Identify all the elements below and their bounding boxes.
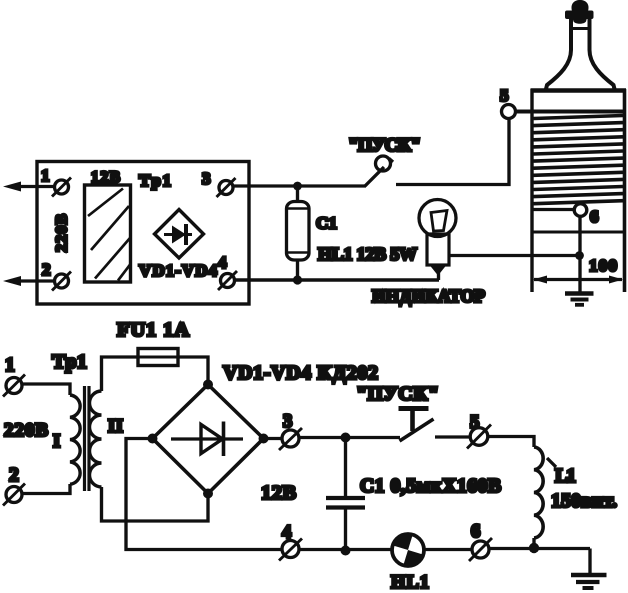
lamp HL1 indicator bulb: [419, 200, 456, 237]
wire arrow to terminal 1: [18, 185, 55, 188]
svg-text:VD1-VD4: VD1-VD4: [139, 261, 218, 280]
wire terminal 6 to ground: [489, 547, 590, 550]
svg-text:12В: 12В: [261, 482, 296, 504]
svg-text:150вит.: 150вит.: [551, 491, 617, 512]
converter box: [37, 162, 249, 305]
wire terminal 1 to primary: [23, 384, 71, 395]
transformer primary winding I: [70, 395, 80, 484]
svg-text:2: 2: [9, 465, 19, 486]
svg-text:3: 3: [283, 412, 292, 432]
terminal 4: [221, 274, 235, 288]
wire lamp to ground column: [449, 254, 580, 257]
svg-text:12В: 12В: [91, 169, 120, 186]
terminal 6 bottom: [472, 541, 489, 558]
junction C1 top: [293, 182, 302, 191]
svg-text:5: 5: [500, 86, 509, 105]
wire primary to terminal 2: [23, 484, 71, 494]
terminal 2: [55, 274, 69, 288]
terminal 3 bottom: [282, 430, 299, 447]
wire terminal 4 to lamp: [235, 278, 440, 281]
wire terminal 3 to push button: [299, 436, 400, 439]
svg-text:6: 6: [590, 207, 599, 226]
wire secondary top to fuse: [102, 357, 139, 391]
fuse FU1: [138, 349, 178, 366]
coil former box: [530, 89, 533, 292]
svg-text:C1 0,5мкХ160В: C1 0,5мкХ160В: [360, 476, 501, 497]
bridge VD1-VD4 diamond: [155, 210, 204, 259]
svg-text:5: 5: [470, 413, 479, 433]
lamp HL1 bottom: [388, 530, 428, 570]
transformer core: [83, 386, 86, 491]
capacitor C1 bottom: [344, 438, 347, 497]
svg-text:L1: L1: [555, 466, 576, 487]
dimension 100: [534, 278, 622, 281]
terminal 1 bottom: [6, 378, 22, 394]
svg-text:"ПУСК": "ПУСК": [356, 383, 439, 405]
ground bottom: [571, 573, 607, 578]
svg-text:Тр1: Тр1: [139, 171, 171, 190]
svg-text:ИНДИКАТОР: ИНДИКАТОР: [372, 286, 485, 306]
capacitor C1 cylinder: [296, 186, 299, 202]
terminal 1: [55, 180, 69, 194]
push button PUSK: [400, 419, 434, 441]
wire bridge right to terminal 3: [264, 437, 283, 440]
diode inside bridge: [171, 437, 243, 440]
transformer T1 hatched rect: [85, 185, 131, 282]
terminal 6 top: [532, 208, 574, 211]
svg-text:220В: 220В: [54, 214, 71, 252]
terminal 5 bottom: [470, 428, 488, 446]
terminal 4 bottom: [282, 541, 299, 558]
terminal 3: [219, 181, 233, 195]
wire lamp to terminal 6: [424, 548, 472, 551]
svg-text:VD1-VD4 КД202: VD1-VD4 КД202: [223, 362, 378, 384]
svg-text:HL1: HL1: [391, 573, 429, 593]
wire bridge left to terminal 4: [126, 439, 282, 550]
wire push button to terminal 5: [435, 435, 470, 438]
svg-text:I: I: [53, 432, 60, 452]
svg-text:"ПУСК": "ПУСК": [348, 135, 421, 156]
wire secondary bottom to bridge bottom: [102, 487, 209, 521]
svg-text:II: II: [108, 417, 123, 437]
bridge diamond: [153, 385, 264, 494]
svg-text:HL1 12В 5W: HL1 12В 5W: [318, 244, 417, 264]
svg-text:FU1 1A: FU1 1A: [117, 319, 189, 341]
wire arrow to terminal 2: [18, 279, 55, 282]
wire fuse to bridge top: [178, 357, 208, 384]
switch PUSK top: [365, 167, 384, 186]
svg-text:3: 3: [202, 169, 211, 188]
wire terminal 6 to ground: [578, 217, 581, 293]
junction C1 bottom: [293, 275, 302, 284]
svg-text:4: 4: [282, 523, 291, 543]
coil winding on bottle: [534, 116, 624, 204]
svg-text:1: 1: [5, 355, 15, 376]
ground top: [565, 291, 594, 295]
transformer secondary winding II: [90, 391, 102, 487]
svg-text:100: 100: [589, 256, 617, 275]
bottom wire terminal 4 to ground: [299, 548, 392, 551]
wire terminal 3 to switch: [233, 184, 366, 187]
svg-text:1: 1: [41, 166, 50, 185]
svg-text:6: 6: [471, 522, 480, 542]
junction C1 bottom top: [341, 433, 351, 443]
wire switch to terminal 5: [396, 119, 509, 185]
svg-text:Тр1: Тр1: [52, 351, 87, 373]
svg-text:220В: 220В: [4, 420, 48, 441]
terminal 5 top: [502, 105, 516, 119]
svg-text:4: 4: [218, 253, 227, 272]
wire terminal 5 into coil: [516, 110, 625, 114]
coil L1: [534, 447, 543, 538]
svg-text:C1: C1: [316, 214, 337, 233]
bottle: [546, 19, 571, 89]
wire terminal 5 to L1: [488, 437, 534, 448]
svg-text:2: 2: [42, 260, 51, 279]
terminal 2 bottom: [6, 487, 22, 503]
